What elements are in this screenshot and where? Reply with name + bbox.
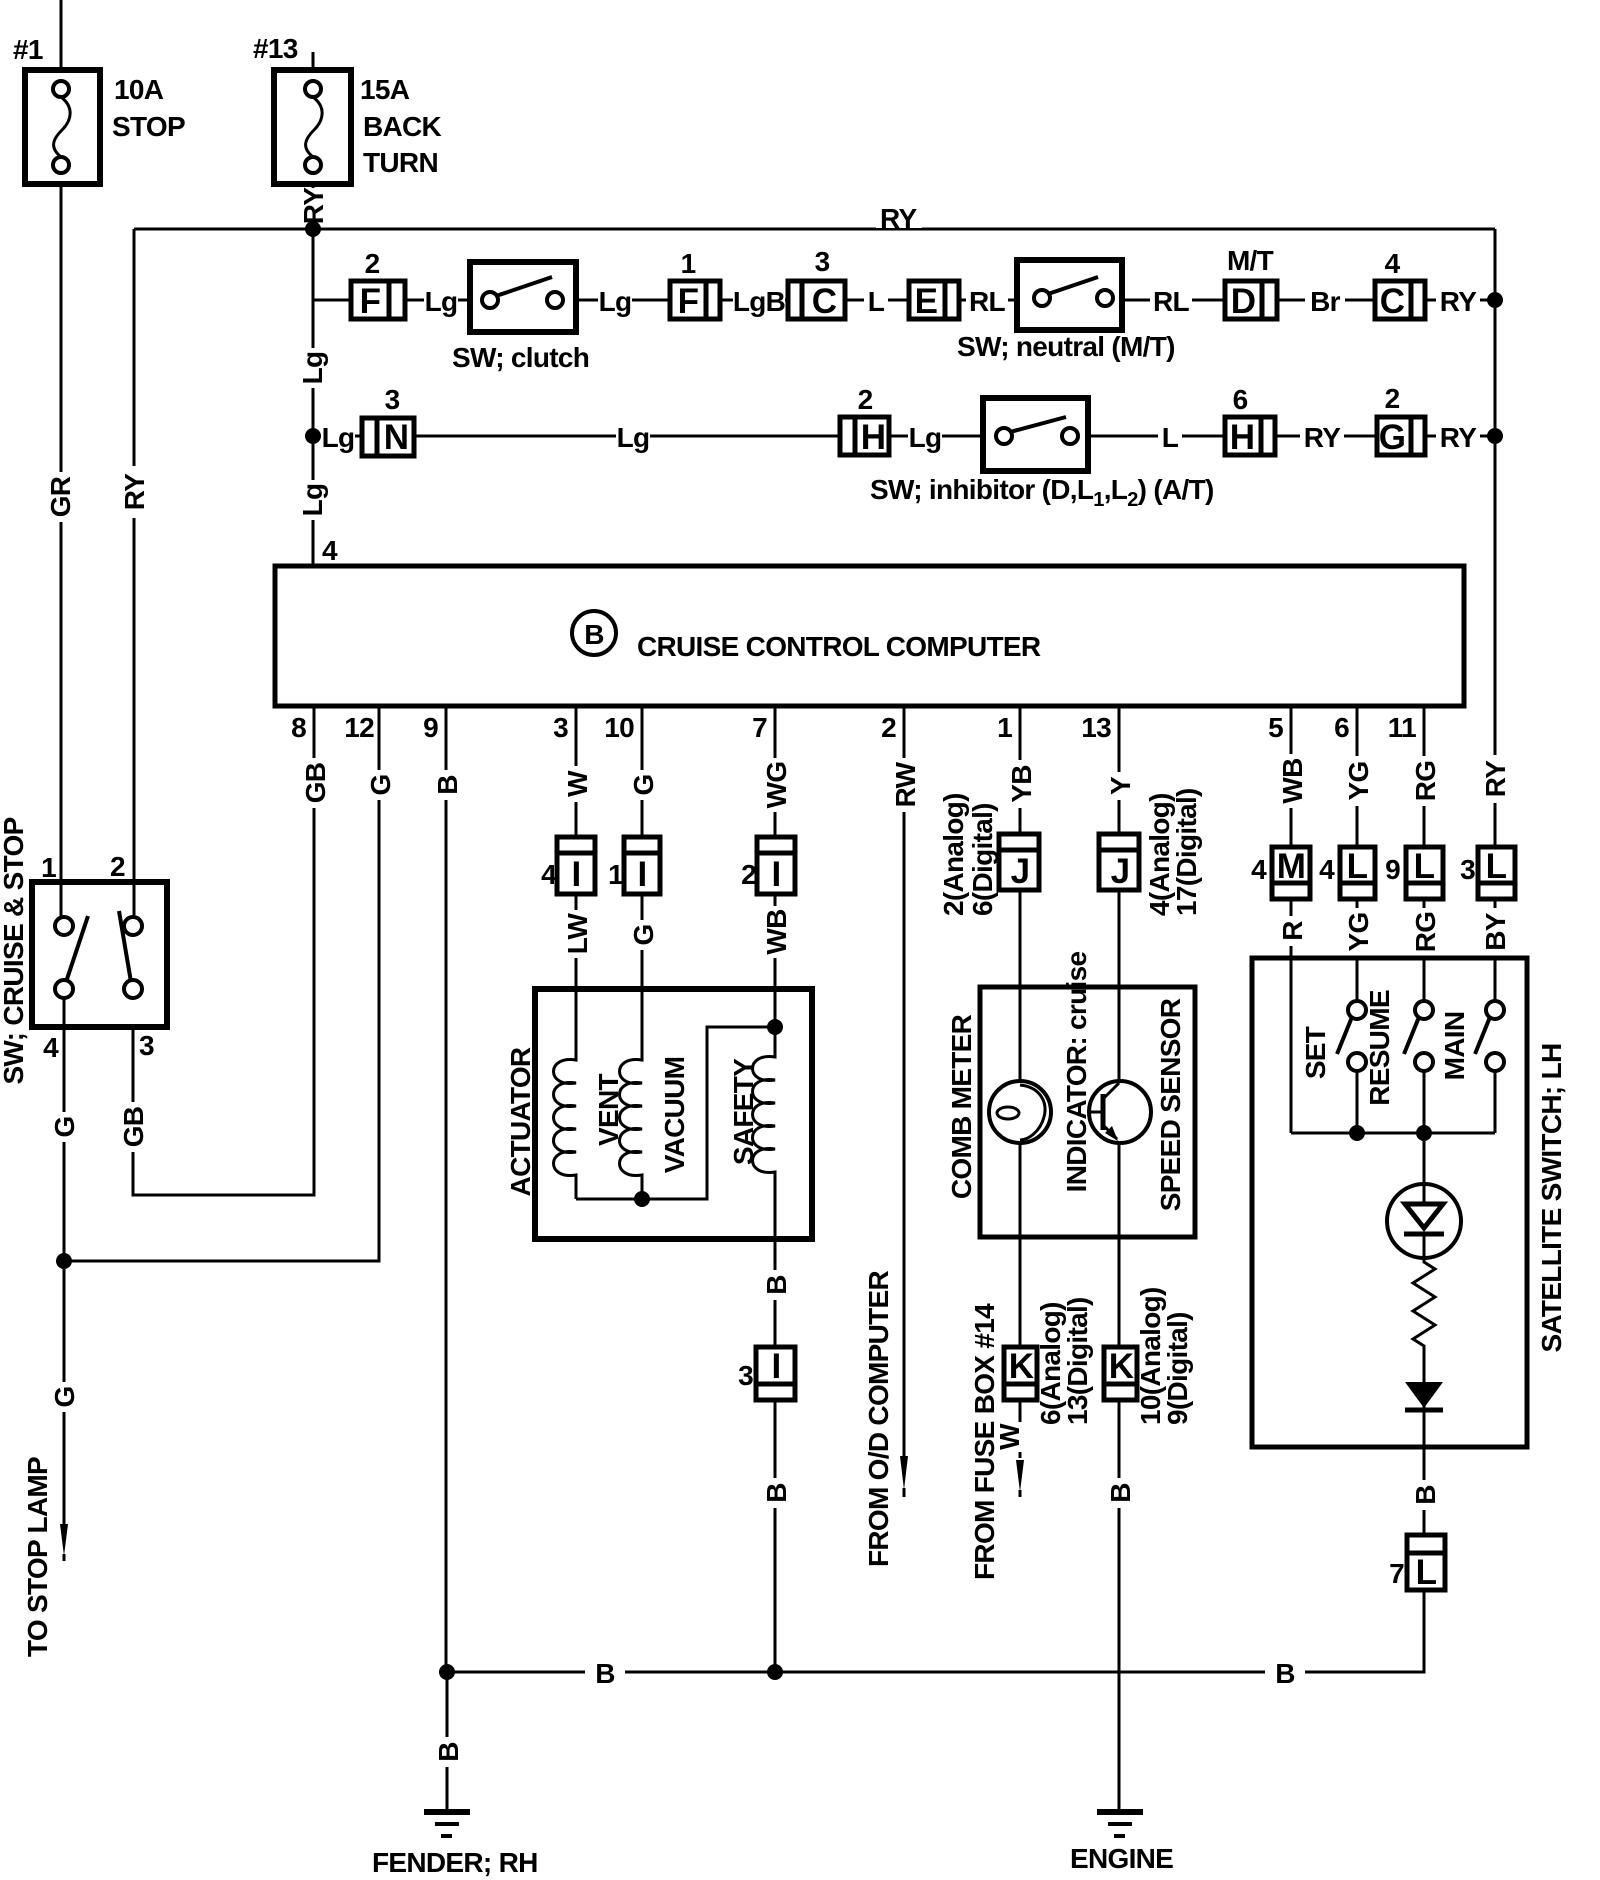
wire B from safety to connector I xyxy=(774,1239,777,1347)
wire WB from connector I to actuator xyxy=(774,894,777,989)
svg-text:4: 4 xyxy=(43,1032,59,1063)
wire Lg xyxy=(405,299,470,302)
svg-text:B: B xyxy=(433,1742,464,1762)
actuator box xyxy=(535,989,812,1239)
wire through lamp down to connector K xyxy=(1019,1143,1022,1347)
wire YG from connector L to SET switch xyxy=(1356,899,1359,1005)
svg-text:2: 2 xyxy=(741,859,756,890)
switch SW; cruise and stop xyxy=(32,851,167,1063)
svg-text:1: 1 xyxy=(41,852,56,883)
svg-text:6(Digital): 6(Digital) xyxy=(967,803,998,916)
svg-text:Lg: Lg xyxy=(297,352,328,385)
svg-text:I: I xyxy=(637,855,646,894)
svg-text:RY: RY xyxy=(1440,286,1477,317)
wire G from pin 10 to connector I xyxy=(641,706,644,837)
svg-text:#13: #13 xyxy=(253,33,298,64)
junction vacuum coil bottom xyxy=(634,1191,650,1207)
svg-text:13(Digital): 13(Digital) xyxy=(1062,1297,1093,1425)
svg-text:4: 4 xyxy=(1319,854,1335,885)
svg-text:9(Digital): 9(Digital) xyxy=(1162,1312,1193,1425)
svg-text:J: J xyxy=(1011,852,1030,891)
svg-text:K: K xyxy=(1109,1347,1134,1386)
wire RY bus left drop to cruise switch pin 2 xyxy=(133,229,136,920)
svg-text:2: 2 xyxy=(110,851,125,882)
wire RY to right bus xyxy=(1425,299,1495,302)
diode xyxy=(1405,1382,1443,1410)
svg-text:2: 2 xyxy=(1385,383,1400,414)
wire R from connector M to satellite switch xyxy=(1290,899,1293,1133)
svg-text:Y: Y xyxy=(1105,776,1136,795)
wire GR from fuse #1 to cruise switch pin 1 xyxy=(60,184,63,920)
connector K left xyxy=(1004,1297,1093,1425)
junction at fuse #13 and RY bus xyxy=(305,221,321,237)
wire stub above fuse #13 xyxy=(312,52,315,70)
svg-text:N: N xyxy=(384,418,409,457)
connector I pin 4 xyxy=(541,837,595,894)
wire W with arrow from fuse box 14 xyxy=(994,1400,1035,1497)
connector J right xyxy=(1099,788,1202,916)
svg-text:B: B xyxy=(1105,1483,1136,1503)
svg-text:MAIN: MAIN xyxy=(1439,1012,1470,1081)
svg-text:RL: RL xyxy=(1153,286,1190,317)
svg-text:2(Analog): 2(Analog) xyxy=(938,793,969,916)
svg-text:H: H xyxy=(861,418,886,457)
svg-text:F: F xyxy=(678,282,699,321)
svg-text:RG: RG xyxy=(1410,912,1441,953)
internal wire joining coils to safety xyxy=(576,1027,775,1199)
switch SW; inhibitor (A/T) xyxy=(870,398,1214,511)
wire YB from connector J to comb meter xyxy=(1019,890,1022,1081)
wire Lg between row 1 and row 2 xyxy=(312,300,315,436)
wire RG from connector L to RESUME switch xyxy=(1423,899,1426,1005)
svg-text:C: C xyxy=(1380,282,1405,321)
svg-text:17(Digital): 17(Digital) xyxy=(1171,788,1202,916)
svg-text:C: C xyxy=(812,282,837,321)
wire Lg feed from RY junction down to row 1 xyxy=(313,229,351,300)
junction RY right with row 1 xyxy=(1487,292,1503,308)
wire YB from pin 1 to connector J xyxy=(1019,706,1022,832)
svg-text:#1: #1 xyxy=(13,34,43,65)
svg-text:RW: RW xyxy=(890,761,921,807)
svg-text:8: 8 xyxy=(291,712,306,743)
junction RY right with row 2 xyxy=(1487,428,1503,444)
svg-text:B: B xyxy=(1275,1658,1295,1689)
svg-text:VACUUM: VACUUM xyxy=(659,1057,690,1174)
svg-text:B: B xyxy=(1410,1485,1441,1505)
connector L pin 7 xyxy=(1389,1535,1445,1592)
svg-text:I: I xyxy=(771,1347,780,1386)
svg-text:GB: GB xyxy=(300,763,331,804)
ground bus B labels xyxy=(585,1657,625,1687)
LED indicator xyxy=(1387,1184,1461,1258)
svg-text:M: M xyxy=(1277,847,1305,886)
svg-text:B: B xyxy=(595,1658,615,1689)
connector F pin 1 xyxy=(670,248,720,321)
connector L pin 4 xyxy=(1319,847,1375,899)
svg-text:J: J xyxy=(1111,852,1130,891)
svg-text:3: 3 xyxy=(1460,854,1475,885)
wire RY to right bus xyxy=(1425,435,1495,438)
fuse #13 15A BACK TURN xyxy=(253,33,442,184)
svg-text:TURN: TURN xyxy=(363,147,438,178)
svg-text:TO STOP LAMP: TO STOP LAMP xyxy=(22,1457,53,1657)
speed sensor transistor xyxy=(1089,1081,1151,1143)
svg-text:Lg: Lg xyxy=(297,484,328,517)
svg-text:7: 7 xyxy=(752,712,767,743)
svg-text:GB: GB xyxy=(118,1107,149,1148)
svg-text:10: 10 xyxy=(604,712,634,743)
svg-text:FENDER; RH: FENDER; RH xyxy=(372,1847,538,1878)
svg-text:L: L xyxy=(1416,1553,1437,1592)
svg-text:RY: RY xyxy=(1440,422,1477,453)
svg-text:FROM O/D COMPUTER: FROM O/D COMPUTER xyxy=(863,1270,894,1567)
svg-text:WG: WG xyxy=(761,762,792,809)
connector D M/T xyxy=(1225,245,1277,321)
svg-text:2: 2 xyxy=(858,384,873,415)
svg-text:BACK: BACK xyxy=(363,111,442,142)
svg-text:LgB: LgB xyxy=(733,286,785,317)
wire Lg xyxy=(576,299,670,302)
svg-text:G: G xyxy=(628,924,659,945)
svg-text:L: L xyxy=(1347,847,1368,886)
svg-text:G: G xyxy=(365,774,396,795)
svg-text:G: G xyxy=(1379,418,1406,457)
svg-text:L: L xyxy=(868,286,885,317)
wire LW from connector I to actuator xyxy=(575,894,578,989)
wire RY right vertical drop xyxy=(1494,229,1497,847)
wire YG from pin 6 to connector L xyxy=(1356,706,1359,847)
svg-text:RY: RY xyxy=(880,203,917,234)
svg-text:K: K xyxy=(1009,1347,1034,1386)
svg-text:RY: RY xyxy=(119,473,150,510)
junction G wires xyxy=(56,1253,72,1269)
svg-text:I: I xyxy=(571,855,580,894)
switch SW; neutral (M/T) xyxy=(957,260,1175,362)
connector H pin 2 xyxy=(840,384,889,457)
wire from battery to fuse #1 xyxy=(60,0,63,70)
svg-text:Br: Br xyxy=(1310,286,1341,317)
svg-text:12: 12 xyxy=(344,712,374,743)
connector J left xyxy=(938,793,1039,916)
svg-text:E: E xyxy=(915,282,938,321)
svg-text:2: 2 xyxy=(365,248,380,279)
inner switch frame xyxy=(1291,1132,1495,1135)
svg-text:YG: YG xyxy=(1343,761,1374,800)
svg-text:RG: RG xyxy=(1410,761,1441,802)
connector L pin 3 xyxy=(1460,847,1515,899)
svg-text:7: 7 xyxy=(1389,1558,1404,1589)
svg-text:WB: WB xyxy=(1277,758,1308,803)
svg-text:Lg: Lg xyxy=(425,286,458,317)
wire G to stop lamp with arrow xyxy=(63,1261,66,1525)
svg-text:9: 9 xyxy=(1385,854,1400,885)
svg-text:RL: RL xyxy=(969,286,1006,317)
wire B from connector I to ground bus xyxy=(774,1400,777,1672)
connector E xyxy=(909,281,959,321)
junction SET xyxy=(1349,1125,1365,1141)
wire B from bus to fender ground xyxy=(446,1672,449,1810)
svg-text:SPEED SENSOR: SPEED SENSOR xyxy=(1155,998,1186,1211)
svg-text:F: F xyxy=(360,282,381,321)
svg-text:L: L xyxy=(1414,847,1435,886)
connector M pin 4 xyxy=(1251,847,1310,899)
connector N pin 3 xyxy=(362,384,414,457)
wire G from pin 12 down and left to junction xyxy=(64,706,379,1261)
svg-text:L: L xyxy=(1486,847,1507,886)
svg-text:I: I xyxy=(771,855,780,894)
connector H pin 6 xyxy=(1225,384,1275,457)
svg-text:W: W xyxy=(562,770,593,797)
label GB on pin 3 wire xyxy=(121,1102,148,1152)
wire GB from pin 8 down and left to cruise switch pin 3 xyxy=(133,706,314,1195)
svg-text:RY: RY xyxy=(1304,422,1341,453)
svg-text:L: L xyxy=(1162,422,1179,453)
svg-text:SATELLITE SWITCH; LH: SATELLITE SWITCH; LH xyxy=(1536,1044,1567,1353)
wire RY xyxy=(1275,435,1377,438)
svg-text:Lg: Lg xyxy=(617,422,650,453)
wire RL xyxy=(959,299,1017,302)
svg-text:CRUISE CONTROL COMPUTER: CRUISE CONTROL COMPUTER xyxy=(637,631,1041,662)
svg-text:9: 9 xyxy=(423,712,438,743)
svg-text:STOP: STOP xyxy=(112,111,185,142)
svg-text:3: 3 xyxy=(385,384,400,415)
svg-text:3: 3 xyxy=(139,1030,154,1061)
svg-text:6: 6 xyxy=(1334,712,1349,743)
svg-text:6: 6 xyxy=(1233,384,1248,415)
connector C pin 4 xyxy=(1375,248,1425,321)
svg-text:G: G xyxy=(49,1386,80,1407)
svg-text:B: B xyxy=(761,1275,792,1295)
comb meter box xyxy=(980,987,1195,1237)
svg-text:15A: 15A xyxy=(360,74,410,105)
wire Y from pin 13 to connector J xyxy=(1118,706,1121,832)
junction RESUME xyxy=(1416,1125,1432,1141)
wire Br xyxy=(1277,299,1375,302)
wire L xyxy=(1088,435,1225,438)
wire SET to frame xyxy=(1356,1071,1359,1133)
svg-text:B: B xyxy=(584,619,604,650)
svg-text:3: 3 xyxy=(553,712,568,743)
svg-text:Lg: Lg xyxy=(322,422,355,453)
svg-text:SW; clutch: SW; clutch xyxy=(452,342,589,373)
connector circle B xyxy=(572,611,616,655)
svg-text:ACTUATOR: ACTUATOR xyxy=(505,1047,536,1196)
wire MAIN to frame corner xyxy=(1494,1071,1497,1133)
svg-text:M/T: M/T xyxy=(1227,245,1274,276)
svg-text:3: 3 xyxy=(738,1360,753,1391)
svg-text:SET: SET xyxy=(1300,1026,1331,1079)
wire LgB xyxy=(720,299,788,302)
wire RESUME to frame xyxy=(1423,1071,1426,1133)
wire W from pin 3 to connector I xyxy=(575,706,578,837)
svg-text:B: B xyxy=(761,1483,792,1503)
svg-text:WB: WB xyxy=(761,909,792,954)
arrow to O/D computer xyxy=(900,1456,908,1490)
svg-text:2: 2 xyxy=(881,712,896,743)
junction safety wire xyxy=(767,1019,783,1035)
wire WB from pin 5 to connector M xyxy=(1290,706,1293,847)
wire from diode to box edge and connector L xyxy=(1423,1352,1426,1535)
ground ENGINE xyxy=(1070,1812,1173,1874)
svg-text:B: B xyxy=(432,775,463,795)
ground FENDER; RH xyxy=(372,1812,538,1878)
switch SET xyxy=(1300,1001,1366,1079)
connector I pin 3 xyxy=(738,1347,795,1400)
svg-text:YB: YB xyxy=(1006,765,1037,803)
wire RL xyxy=(1122,299,1225,302)
svg-text:4: 4 xyxy=(1385,248,1401,279)
wire from speed sensor down to connector K xyxy=(1118,1143,1121,1347)
connector K right xyxy=(1104,1287,1193,1425)
wire Lg from row 2 to computer pin 4 xyxy=(312,436,315,566)
svg-text:R: R xyxy=(1277,921,1308,941)
svg-text:GR: GR xyxy=(45,476,76,517)
wire Lg xyxy=(889,435,983,438)
wire from resume junction to LED xyxy=(1423,1133,1426,1190)
wire BY from connector L to MAIN switch xyxy=(1494,899,1497,1005)
connector L pin 9 xyxy=(1385,847,1443,899)
svg-text:1: 1 xyxy=(681,248,696,279)
svg-text:SW; neutral (M/T): SW; neutral (M/T) xyxy=(957,331,1175,362)
svg-text:11: 11 xyxy=(1388,712,1416,743)
coil VENT xyxy=(554,989,625,1199)
svg-text:ENGINE: ENGINE xyxy=(1070,1843,1173,1874)
svg-text:G: G xyxy=(49,1116,80,1137)
junction Lg at row 2 xyxy=(305,428,321,444)
svg-text:5: 5 xyxy=(1268,712,1283,743)
svg-text:Lg: Lg xyxy=(909,422,942,453)
coil VACUUM xyxy=(620,989,691,1199)
wire B from pin 9 down to ground bus xyxy=(445,706,448,1672)
svg-text:1: 1 xyxy=(608,859,623,890)
svg-text:3: 3 xyxy=(815,246,830,277)
svg-text:INDICATOR: cruise: INDICATOR: cruise xyxy=(1061,952,1092,1193)
svg-text:4: 4 xyxy=(322,535,338,566)
svg-text:RY: RY xyxy=(298,187,329,224)
svg-text:SW; CRUISE & STOP: SW; CRUISE & STOP xyxy=(0,817,29,1084)
connector C pin 3 xyxy=(788,246,845,321)
wire G from connector I to actuator xyxy=(641,894,644,989)
svg-text:COMB METER: COMB METER xyxy=(946,1014,977,1199)
wire RY bus horizontal xyxy=(134,228,1495,231)
wire G from switch pin 4 down to junction xyxy=(63,998,66,1261)
indicator lamp xyxy=(989,1081,1051,1143)
svg-text:4: 4 xyxy=(1251,854,1267,885)
svg-text:RESUME: RESUME xyxy=(1364,990,1395,1106)
wire Lg long xyxy=(414,435,840,438)
svg-text:D: D xyxy=(1231,282,1256,321)
wire RY from fuse #13 to RY bus xyxy=(312,184,315,229)
svg-text:YG: YG xyxy=(1343,912,1374,951)
connector G pin 2 xyxy=(1377,383,1425,457)
switch SW; clutch xyxy=(452,262,589,373)
svg-text:H: H xyxy=(1230,418,1255,457)
switch RESUME xyxy=(1364,990,1433,1106)
wire L xyxy=(845,299,909,302)
connector I pin 2 xyxy=(741,837,795,894)
svg-text:1: 1 xyxy=(997,712,1012,743)
wire B from connector L to ground bus xyxy=(447,1590,1424,1672)
svg-text:Lg: Lg xyxy=(599,286,632,317)
wire WG from pin 7 to connector I xyxy=(774,706,777,837)
wire Lg to connector N xyxy=(313,435,362,438)
satellite switch box xyxy=(1252,958,1527,1447)
connector I pin 1 xyxy=(608,837,660,894)
svg-text:RY: RY xyxy=(1480,760,1511,797)
fuse #1 10A STOP xyxy=(13,34,185,184)
junction ground bus with safety B wire xyxy=(767,1664,783,1680)
svg-text:13: 13 xyxy=(1081,712,1111,743)
svg-text:LW: LW xyxy=(562,912,593,954)
svg-text:BY: BY xyxy=(1480,912,1511,951)
wire Y from connector J to comb meter xyxy=(1118,890,1121,1081)
svg-text:10A: 10A xyxy=(114,74,164,105)
wire B from connector K to engine ground xyxy=(1118,1400,1121,1810)
wire RG from pin 11 to connector L xyxy=(1423,706,1426,847)
cruise control computer box xyxy=(275,566,1464,706)
coil SAFETY xyxy=(728,989,775,1239)
resistor xyxy=(1413,1258,1435,1352)
svg-text:W: W xyxy=(994,1423,1025,1450)
junction ground bus with pin 9 B wire xyxy=(439,1664,455,1680)
wire RW from pin 2 down to O/D computer arrow xyxy=(903,706,906,1456)
connector F pin 2 xyxy=(351,248,405,321)
switch MAIN xyxy=(1439,1001,1504,1080)
svg-text:G: G xyxy=(628,774,659,795)
